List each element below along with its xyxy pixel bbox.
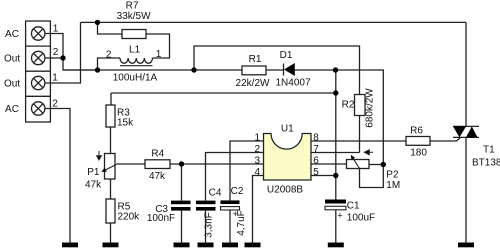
potentiometer P1 body <box>105 154 116 180</box>
diode D1 triangle <box>284 63 295 76</box>
svg-text:220k: 220k <box>118 212 141 223</box>
svg-text:100nF: 100nF <box>147 213 175 224</box>
wire C3 to ground <box>181 211 183 243</box>
svg-text:R1: R1 <box>249 54 262 65</box>
resistor R7 <box>122 30 146 39</box>
node P2 right <box>381 162 386 167</box>
wire down to R3 <box>110 93 112 105</box>
svg-text:2: 2 <box>255 144 261 155</box>
svg-text:47k: 47k <box>149 171 166 182</box>
svg-text:P2: P2 <box>386 170 399 181</box>
svg-text:D1: D1 <box>280 50 293 61</box>
svg-text:1N4007: 1N4007 <box>275 78 310 89</box>
svg-text:R2: R2 <box>342 100 355 111</box>
node pin5 C1 <box>333 173 338 178</box>
svg-text:8: 8 <box>313 133 319 144</box>
svg-text:U2008B: U2008B <box>267 185 303 196</box>
terminal 4 circle-X <box>32 102 45 115</box>
wire node to R3 line <box>111 92 336 94</box>
wire R6 to triac gate <box>430 137 461 141</box>
node terminal 1-2 <box>60 55 65 60</box>
potentiometer P1 wiper arrow <box>106 164 118 170</box>
wire R3 to P1 <box>110 127 112 154</box>
wire node to C1 <box>335 176 337 200</box>
wire R7 branch from top rail <box>98 22 123 34</box>
triac T1 bottom bar <box>453 136 479 138</box>
svg-text:L1: L1 <box>129 44 141 55</box>
wire R2 branch up and over <box>194 46 360 95</box>
svg-text:C4: C4 <box>209 188 222 199</box>
svg-text:15k: 15k <box>117 118 134 129</box>
resistor R1 <box>242 66 266 75</box>
wire D1 to node <box>295 69 336 71</box>
wire terminal 1 to node <box>45 34 63 59</box>
svg-text:R7: R7 <box>126 1 139 12</box>
ground C2 <box>222 243 238 248</box>
wire pin 4 to ground <box>253 176 264 243</box>
capacitor C2 positive plate <box>221 200 240 204</box>
svg-text:680k/2W: 680k/2W <box>365 88 376 128</box>
wire R5 to ground <box>110 223 112 243</box>
wire node to P2 right branch <box>336 70 384 165</box>
svg-text:1: 1 <box>52 73 58 84</box>
node rail R2 branch <box>191 67 196 72</box>
ground R5 <box>103 243 119 248</box>
terminal block divider 2 <box>26 70 51 72</box>
wire C4 to ground <box>205 211 207 243</box>
wire terminal 3 up to top rail <box>45 22 81 83</box>
svg-text:T1: T1 <box>483 145 495 156</box>
terminal 1 circle-X <box>32 27 45 40</box>
svg-text:2: 2 <box>52 99 58 110</box>
inductor L1 core line <box>120 65 153 67</box>
svg-text:6: 6 <box>313 156 319 167</box>
capacitor C3 plates <box>171 201 191 211</box>
U1 pin 1 stub <box>230 140 264 142</box>
terminal block K1 outline <box>26 21 51 122</box>
terminal block divider 1 <box>26 45 51 47</box>
wire pin 8 to R6 <box>311 140 406 142</box>
svg-text:AC: AC <box>5 104 19 115</box>
wire R7 to L1 <box>146 34 170 58</box>
svg-text:3,3nF: 3,3nF <box>203 212 214 238</box>
svg-text:47k: 47k <box>85 180 102 191</box>
svg-text:100uH/1A: 100uH/1A <box>113 73 158 84</box>
wire main rail to R1 <box>63 69 242 71</box>
wire pin 2 to C4 <box>206 153 264 201</box>
node R3 line <box>333 90 338 95</box>
wire C3 branch <box>181 164 183 201</box>
svg-text:U1: U1 <box>281 124 294 135</box>
P2 adjustment arrow <box>364 150 373 155</box>
triac T1 right triangle <box>466 126 478 137</box>
capacitor C4 plates <box>196 201 216 211</box>
resistor R4 <box>145 160 170 169</box>
wire triac to ground <box>465 137 467 242</box>
triac T1 left triangle <box>453 126 466 137</box>
P1 adjustment arrow <box>97 151 102 160</box>
ground terminal 4 <box>62 243 78 248</box>
ground symbols <box>62 243 474 248</box>
svg-text:C2: C2 <box>231 186 244 197</box>
ground pin 4 <box>245 243 261 248</box>
terminal block divider 3 <box>26 95 51 97</box>
wire C1 to ground <box>335 210 337 243</box>
wire terminal 2 to node <box>45 57 63 59</box>
svg-text:100uF: 100uF <box>347 213 375 224</box>
node R4 C3 <box>179 161 184 166</box>
svg-text:Out: Out <box>4 79 20 90</box>
capacitor C1 positive plate <box>325 200 346 204</box>
wire P2 right lead <box>369 164 383 166</box>
potentiometer P2 body <box>347 160 370 169</box>
svg-text:1: 1 <box>156 49 162 60</box>
capacitor C2 negative plate <box>221 207 240 210</box>
wire top rail <box>81 21 467 23</box>
wire node to rail <box>63 58 98 70</box>
wire terminal 4 to ground <box>45 109 70 243</box>
svg-text:7: 7 <box>313 144 319 155</box>
wire pin 6 to P2 <box>311 163 347 165</box>
op-amp U1 body <box>264 134 312 181</box>
triac T1 top bar <box>453 125 479 127</box>
svg-text:22k/2W: 22k/2W <box>236 78 270 89</box>
wire pin 1 to C2 <box>230 141 264 200</box>
svg-text:1: 1 <box>255 133 261 144</box>
svg-text:+: + <box>337 210 342 220</box>
node rail L1 <box>95 67 100 72</box>
svg-text:4,7uF: 4,7uF <box>236 210 247 236</box>
wire C2 to ground <box>229 210 231 243</box>
svg-text:1M: 1M <box>386 180 400 191</box>
svg-text:AC: AC <box>5 29 19 40</box>
resistor R6 <box>406 137 430 146</box>
ground T1 <box>458 243 474 248</box>
svg-text:33k/5W: 33k/5W <box>117 11 151 22</box>
svg-text:Out: Out <box>4 54 20 65</box>
svg-text:2: 2 <box>106 50 112 61</box>
capacitor C1 negative plate <box>325 206 346 210</box>
ground C1 <box>328 243 344 248</box>
P2 wiper to right terminal loop <box>360 165 384 188</box>
node top rail R7 <box>95 20 100 25</box>
svg-text:1: 1 <box>53 24 59 35</box>
resistor R5 <box>106 199 115 223</box>
svg-text:3: 3 <box>255 156 261 167</box>
resistor R3 <box>106 105 115 127</box>
svg-text:P1: P1 <box>87 167 100 178</box>
svg-text:2: 2 <box>53 47 59 58</box>
terminal 2 circle-X <box>32 51 45 64</box>
svg-text:C1: C1 <box>347 201 360 212</box>
node D1 output <box>333 67 338 72</box>
wire R1 to D1 <box>266 69 284 71</box>
wire pin 5 to node <box>311 175 336 177</box>
wire L1 to rail <box>98 58 121 70</box>
svg-text:4: 4 <box>255 167 261 178</box>
potentiometer P2 wiper arrow <box>353 159 359 169</box>
svg-text:R6: R6 <box>410 126 423 137</box>
resistor R2 <box>355 95 366 116</box>
terminal 3 circle-X <box>32 76 45 89</box>
svg-text:5: 5 <box>313 167 319 178</box>
svg-text:BT138: BT138 <box>472 158 500 169</box>
wire P1 to R5 <box>110 179 112 199</box>
wire P1 wiper to R4 <box>118 163 145 165</box>
svg-text:R4: R4 <box>151 149 164 160</box>
junction node dots <box>60 20 386 179</box>
wire pin 7 to R2 <box>311 152 360 154</box>
wire supply node down to pin 5 <box>335 70 337 176</box>
wire top rail down to triac <box>465 22 467 126</box>
wire R4 to pin 3 <box>170 163 264 165</box>
diode D1 cathode bar <box>283 64 285 76</box>
svg-text:180: 180 <box>410 148 427 159</box>
ground C4 <box>198 243 214 248</box>
ground C3 <box>174 243 190 248</box>
inductor L1 <box>120 58 152 63</box>
wire R2 bottom to pin 7 <box>359 116 361 153</box>
